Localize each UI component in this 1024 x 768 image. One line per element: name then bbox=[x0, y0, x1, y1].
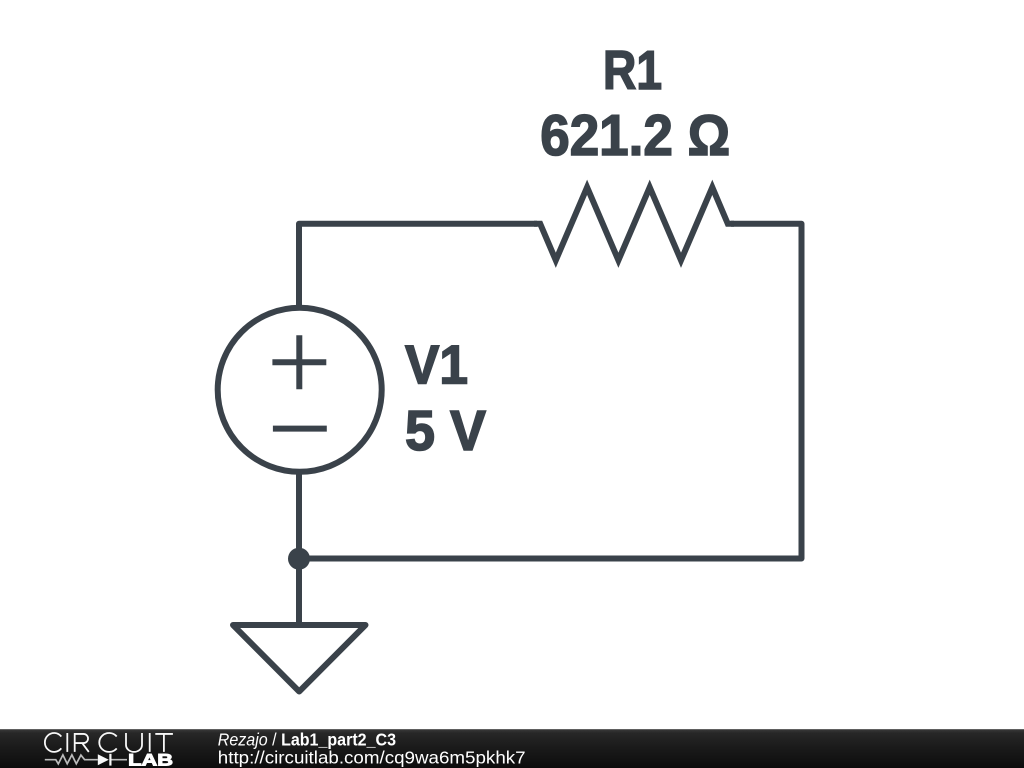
logo letter I2 bbox=[149, 733, 151, 752]
minus sign inside V1 bbox=[273, 426, 327, 432]
voltage source V1 circle bbox=[218, 308, 382, 472]
footer bar bbox=[0, 729, 1024, 768]
svg-text:V1: V1 bbox=[405, 334, 468, 396]
wire from V1 bottom to junction bbox=[296, 470, 302, 559]
svg-text:http://circuitlab.com/cq9wa6m5: http://circuitlab.com/cq9wa6m5pkhk7 bbox=[218, 747, 526, 767]
logo mini schematic wire with resistor bbox=[45, 755, 127, 764]
svg-text:LAB: LAB bbox=[128, 751, 173, 768]
node junction dot bbox=[288, 548, 310, 570]
logo letter I1 bbox=[66, 733, 68, 752]
logo letter R bbox=[75, 734, 89, 752]
wire top-left (from top of V1 up and right to resistor) bbox=[299, 224, 537, 310]
logo letter U bbox=[126, 733, 142, 752]
plus sign inside V1 bbox=[272, 335, 326, 389]
resistor R1 bbox=[534, 187, 734, 260]
logo letter C2 bbox=[99, 733, 116, 752]
logo mini diode bar bbox=[109, 754, 111, 766]
wire top-right, right side and bottom bbox=[299, 224, 802, 559]
wire from junction to ground bbox=[296, 559, 302, 626]
svg-text:5 V: 5 V bbox=[405, 400, 486, 463]
svg-text:R1: R1 bbox=[603, 39, 662, 101]
ground symbol bbox=[233, 625, 366, 692]
svg-text:621.2 Ω: 621.2 Ω bbox=[540, 104, 730, 168]
logo letter C1 bbox=[45, 733, 61, 752]
logo CIRCUIT letters bbox=[45, 733, 173, 752]
logo mini diode triangle bbox=[98, 754, 109, 765]
logo letter T bbox=[155, 734, 173, 752]
